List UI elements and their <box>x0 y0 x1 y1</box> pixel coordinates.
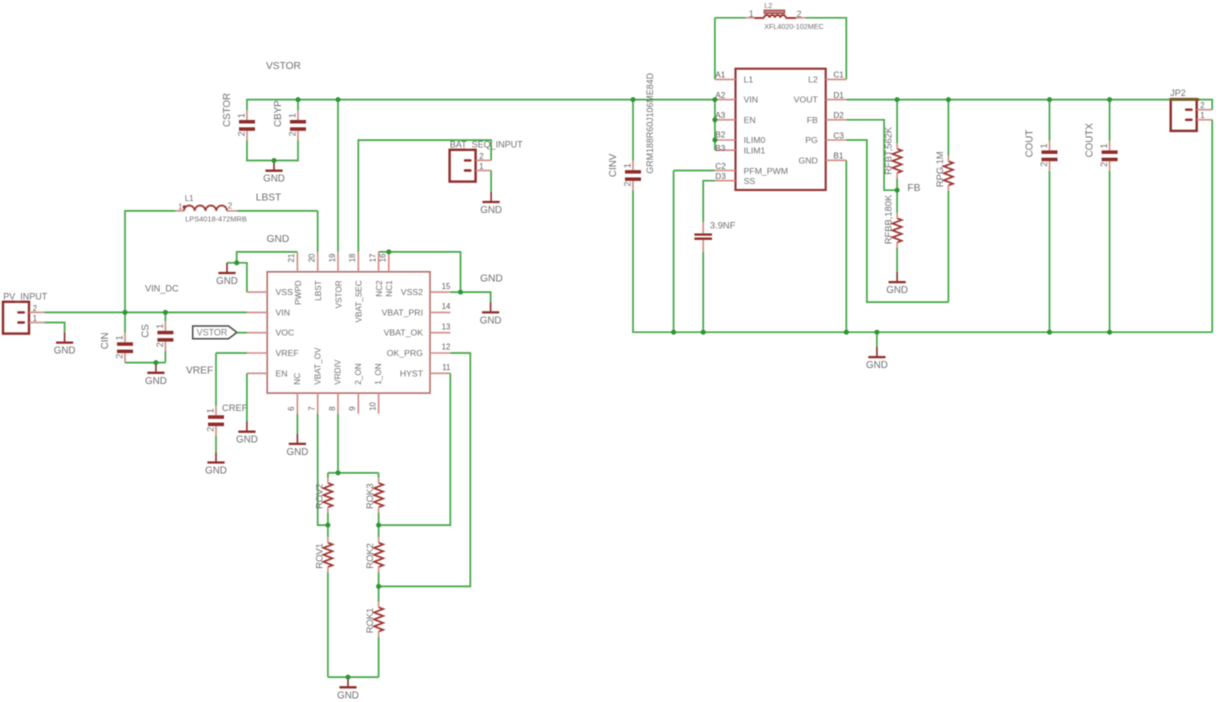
svg-text:GND: GND <box>236 435 258 446</box>
svg-text:VSTOR: VSTOR <box>334 280 343 308</box>
svg-text:7: 7 <box>308 406 317 410</box>
svg-text:17: 17 <box>368 254 377 263</box>
svg-text:2: 2 <box>237 131 247 136</box>
svg-text:21: 21 <box>287 254 296 263</box>
svg-text:D1: D1 <box>833 91 844 100</box>
svg-text:1_ON: 1_ON <box>374 363 383 384</box>
svg-text:GND: GND <box>798 155 817 165</box>
svg-text:PV_INPUT: PV_INPUT <box>3 292 48 302</box>
svg-text:GND: GND <box>145 376 167 387</box>
svg-text:ROK3: ROK3 <box>364 483 375 509</box>
svg-text:VIN: VIN <box>276 307 290 317</box>
svg-text:1: 1 <box>155 324 165 329</box>
svg-text:GND: GND <box>480 274 503 285</box>
svg-text:1: 1 <box>749 9 754 19</box>
svg-text:1: 1 <box>178 202 183 211</box>
svg-text:1: 1 <box>1200 111 1204 120</box>
svg-text:2: 2 <box>115 354 125 359</box>
svg-text:VIN: VIN <box>744 95 758 105</box>
svg-text:VBAT_OV: VBAT_OV <box>313 347 322 385</box>
svg-text:RFBT,562K: RFBT,562K <box>883 126 894 175</box>
svg-text:OK_PRG: OK_PRG <box>387 348 423 358</box>
svg-text:VREF: VREF <box>276 348 299 358</box>
svg-text:12: 12 <box>442 343 451 352</box>
svg-text:VSTOR: VSTOR <box>266 61 301 72</box>
svg-text:COUT: COUT <box>1025 130 1036 158</box>
svg-text:2: 2 <box>479 152 483 161</box>
svg-text:D3: D3 <box>715 172 726 181</box>
svg-text:B3: B3 <box>715 144 725 153</box>
svg-text:VBAT_SEC: VBAT_SEC <box>355 280 364 322</box>
svg-text:VREF: VREF <box>186 365 213 376</box>
svg-text:VRDIV: VRDIV <box>334 359 343 385</box>
svg-text:18: 18 <box>348 254 357 263</box>
svg-text:PFM_PWM: PFM_PWM <box>744 166 788 176</box>
svg-text:B1: B1 <box>833 152 843 161</box>
svg-text:XFL4020-102MEC: XFL4020-102MEC <box>764 22 824 31</box>
svg-text:CREF: CREF <box>222 402 248 413</box>
svg-text:19: 19 <box>328 254 337 263</box>
svg-text:13: 13 <box>442 322 451 331</box>
svg-text:GND: GND <box>287 447 309 458</box>
svg-text:FB: FB <box>907 183 920 194</box>
svg-text:1: 1 <box>479 162 483 171</box>
svg-text:RPG,1M: RPG,1M <box>934 151 945 187</box>
svg-text:1: 1 <box>623 163 633 168</box>
svg-text:2: 2 <box>206 427 216 432</box>
svg-text:2: 2 <box>797 9 802 19</box>
svg-text:EN: EN <box>276 368 288 378</box>
svg-text:9: 9 <box>348 406 357 410</box>
svg-text:GND: GND <box>866 360 888 371</box>
svg-text:NC: NC <box>293 373 302 385</box>
svg-text:6: 6 <box>287 406 296 410</box>
svg-text:2: 2 <box>1099 162 1109 167</box>
svg-text:B2: B2 <box>715 131 725 140</box>
svg-text:LPS4018-472MRB: LPS4018-472MRB <box>185 215 247 224</box>
svg-text:1: 1 <box>206 408 216 413</box>
svg-text:1: 1 <box>1039 143 1049 148</box>
svg-text:1: 1 <box>237 113 247 118</box>
svg-text:1: 1 <box>33 314 37 323</box>
svg-text:COUTX: COUTX <box>1085 123 1096 158</box>
svg-text:GRM188R60J106ME84D: GRM188R60J106ME84D <box>645 73 655 174</box>
svg-text:C1: C1 <box>833 71 844 80</box>
svg-text:LBST: LBST <box>314 280 323 300</box>
svg-text:BAT_SEQ_INPUT: BAT_SEQ_INPUT <box>450 140 523 150</box>
svg-text:2: 2 <box>623 181 633 186</box>
svg-text:HYST: HYST <box>400 368 424 378</box>
svg-text:CINV: CINV <box>608 153 619 177</box>
svg-text:JP2: JP2 <box>1170 88 1186 98</box>
svg-text:20: 20 <box>308 253 317 262</box>
svg-text:ROK1: ROK1 <box>364 608 375 634</box>
svg-text:ROV1: ROV1 <box>313 543 324 569</box>
svg-text:RFBB,180K: RFBB,180K <box>883 194 894 244</box>
svg-text:NC1: NC1 <box>385 280 394 297</box>
svg-text:L2: L2 <box>764 1 772 10</box>
svg-text:GND: GND <box>205 466 227 477</box>
svg-text:PWPD: PWPD <box>294 280 303 305</box>
svg-text:NC2: NC2 <box>375 280 384 297</box>
svg-text:3.9NF: 3.9NF <box>710 220 736 231</box>
svg-text:SS: SS <box>744 176 756 186</box>
svg-text:14: 14 <box>442 302 451 311</box>
svg-text:15: 15 <box>442 282 451 291</box>
svg-text:10: 10 <box>368 401 377 410</box>
svg-text:ILIM1: ILIM1 <box>744 145 766 155</box>
svg-text:A1: A1 <box>715 71 725 80</box>
svg-text:LBST: LBST <box>256 192 281 203</box>
svg-text:VBAT_OK: VBAT_OK <box>384 328 424 338</box>
svg-text:GND: GND <box>480 205 502 216</box>
svg-text:2: 2 <box>33 304 37 313</box>
svg-text:PG: PG <box>805 135 818 145</box>
svg-text:VOUT: VOUT <box>794 95 819 105</box>
svg-text:2: 2 <box>1039 162 1049 167</box>
svg-text:GND: GND <box>263 174 285 185</box>
svg-text:EN: EN <box>744 115 756 125</box>
svg-text:VSS2: VSS2 <box>401 287 423 297</box>
svg-text:2: 2 <box>288 131 298 136</box>
svg-text:1: 1 <box>115 335 125 340</box>
svg-text:CS: CS <box>140 324 151 338</box>
svg-text:GND: GND <box>216 276 238 287</box>
svg-text:VSTOR: VSTOR <box>197 327 228 337</box>
svg-text:2_ON: 2_ON <box>354 363 363 384</box>
svg-text:ILIM0: ILIM0 <box>744 135 766 145</box>
svg-text:2: 2 <box>155 342 165 347</box>
svg-text:2: 2 <box>1200 101 1204 110</box>
svg-text:L1: L1 <box>185 194 194 203</box>
svg-text:GND: GND <box>337 690 359 701</box>
svg-text:8: 8 <box>328 406 337 410</box>
svg-text:L1: L1 <box>744 74 754 84</box>
svg-text:GND: GND <box>886 285 908 296</box>
svg-text:CSTOR: CSTOR <box>222 93 233 127</box>
svg-text:11: 11 <box>442 363 450 372</box>
svg-text:C3: C3 <box>833 131 844 140</box>
svg-text:C2: C2 <box>715 162 726 171</box>
svg-text:GND: GND <box>54 346 76 357</box>
svg-text:VOC: VOC <box>276 328 295 338</box>
svg-text:GND: GND <box>480 315 502 326</box>
svg-text:CIN: CIN <box>100 332 111 349</box>
svg-text:VSS: VSS <box>276 287 294 297</box>
svg-text:16: 16 <box>379 254 388 263</box>
svg-text:CBYP: CBYP <box>273 100 284 127</box>
svg-text:L2: L2 <box>808 74 818 84</box>
svg-text:1: 1 <box>1099 143 1109 148</box>
svg-text:ROV2: ROV2 <box>313 483 324 509</box>
svg-text:D2: D2 <box>833 111 844 120</box>
svg-text:2: 2 <box>228 202 233 211</box>
svg-text:FB: FB <box>807 115 818 125</box>
svg-text:VIN_DC: VIN_DC <box>145 284 179 294</box>
svg-text:GND: GND <box>267 234 290 245</box>
svg-text:VBAT_PRI: VBAT_PRI <box>382 307 423 317</box>
svg-text:1: 1 <box>288 113 298 118</box>
svg-text:ROK2: ROK2 <box>364 543 375 569</box>
